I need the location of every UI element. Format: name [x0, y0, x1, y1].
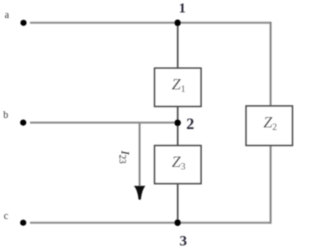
wire: bottom rail c to right corner — [30, 222, 271, 224]
impedance Z3 — [155, 146, 201, 184]
wire: b rail to node 2 — [30, 122, 178, 124]
svg-text:c: c — [4, 211, 9, 222]
wire: right vertical, Z2 bottom to bottom corner — [270, 145, 272, 224]
current arrow I23 head — [134, 186, 146, 200]
svg-text:3: 3 — [180, 234, 188, 248]
wire: node 2 to Z3 top — [177, 123, 179, 146]
svg-text:2: 2 — [186, 116, 194, 133]
terminal b dot — [20, 120, 26, 126]
wire: node 1 to Z1 top — [177, 23, 179, 69]
label I23 (rotated) — [117, 150, 132, 165]
svg-text:b: b — [3, 110, 8, 121]
svg-text:1: 1 — [179, 2, 186, 17]
wire: right vertical, top corner to Z2 top — [270, 22, 272, 107]
terminal a dot — [20, 20, 26, 26]
impedance Z2 — [246, 106, 292, 145]
svg-text:a: a — [5, 10, 10, 21]
node 1 dot — [174, 20, 181, 27]
impedance Z1 — [155, 68, 201, 106]
wire: Z3 bottom to node 3 — [177, 183, 179, 222]
terminal c dot — [20, 220, 26, 226]
current arrow I23 line — [139, 124, 141, 189]
wire: Z1 bottom to node 2 — [177, 106, 179, 123]
node 3 dot — [174, 219, 181, 226]
wire: top rail a to right corner — [30, 22, 271, 24]
node 2 dot — [174, 120, 181, 127]
